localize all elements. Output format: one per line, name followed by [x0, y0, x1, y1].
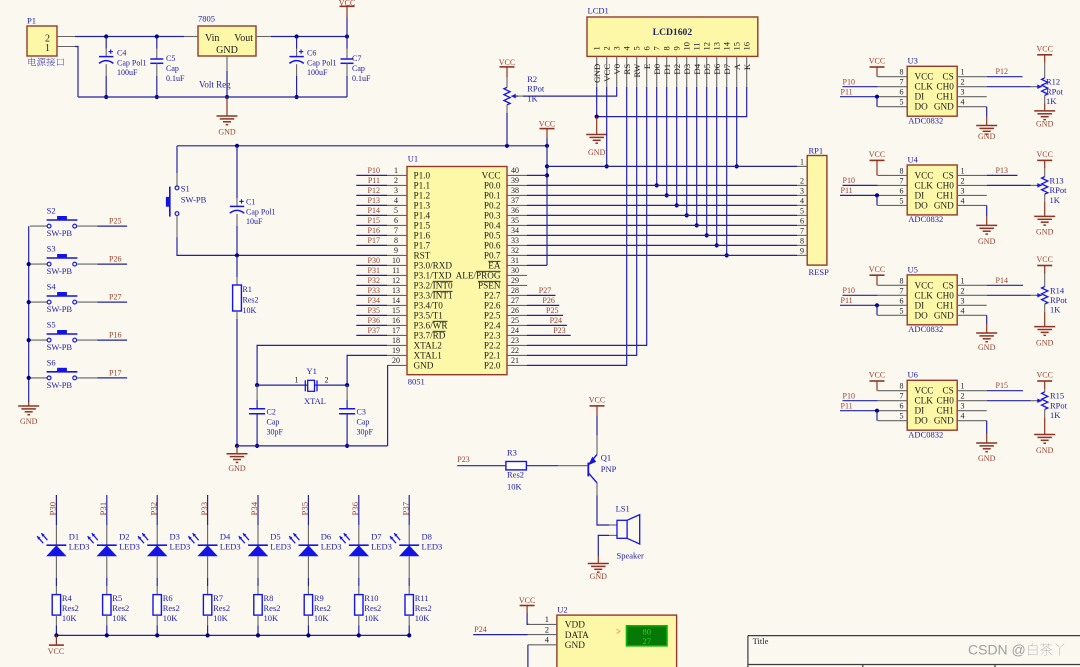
svg-text:3: 3: [800, 186, 804, 195]
svg-text:P24: P24: [550, 316, 562, 325]
svg-text:19: 19: [392, 346, 400, 355]
svg-text:P10: P10: [843, 176, 855, 185]
pin U4-4: [957, 204, 987, 206]
svg-text:VCC: VCC: [915, 170, 934, 180]
svg-text:U2: U2: [557, 605, 567, 615]
svg-text:P17: P17: [368, 236, 380, 245]
svg-text:P37: P37: [400, 501, 410, 515]
pin Q1 collector: [596, 483, 598, 496]
wire D4 to R7: [207, 578, 209, 586]
svg-text:PSEN: PSEN: [478, 281, 501, 291]
wire P0.0 to RP1-2: [527, 184, 797, 186]
pin U4-5: [878, 204, 908, 206]
junction: [104, 95, 108, 99]
svg-text:Cap: Cap: [352, 64, 365, 73]
svg-text:P3.0/RXD: P3.0/RXD: [414, 261, 453, 271]
svg-text:11: 11: [692, 42, 702, 50]
pin U2-1 VDD: [528, 623, 557, 625]
adc U5 ADC0832: [907, 275, 957, 325]
wire VCC vertical (EA/pin40): [546, 146, 548, 266]
capacitor C3: [346, 385, 348, 400]
svg-text:DATA: DATA: [565, 631, 589, 641]
wire CH0 to R15: [987, 400, 1031, 402]
svg-text:C3: C3: [357, 408, 366, 417]
pin U3-5: [878, 106, 908, 108]
pin U1-40 VCC: [507, 174, 527, 176]
pin U1-16 P3.6/WR: [387, 324, 407, 326]
svg-text:VCC: VCC: [915, 72, 934, 82]
svg-text:25: 25: [511, 316, 519, 325]
junction: [655, 183, 659, 187]
svg-text:VCC: VCC: [915, 280, 934, 290]
svg-text:RS: RS: [622, 64, 632, 75]
svg-text:2: 2: [325, 375, 329, 384]
svg-text:S5: S5: [47, 320, 56, 330]
potentiometer R15 RPot 1K: [1044, 389, 1046, 392]
svg-text:P12: P12: [996, 67, 1008, 76]
pin U6-2: [957, 400, 987, 402]
pin LCD1-6 E: [646, 56, 648, 87]
svg-text:1: 1: [961, 68, 965, 77]
svg-text:VCC: VCC: [869, 150, 885, 159]
connector P1: [27, 26, 57, 56]
svg-text:P0.6: P0.6: [484, 241, 501, 251]
svg-text:VCC: VCC: [602, 64, 612, 82]
pin U6-4: [957, 420, 987, 422]
svg-text:U6: U6: [908, 370, 918, 380]
svg-text:CLK: CLK: [915, 82, 934, 92]
port P15: [987, 390, 1023, 392]
speaker LS1: [609, 524, 617, 526]
svg-text:VCC: VCC: [1036, 150, 1052, 159]
junction: [875, 409, 879, 413]
junction: [54, 633, 58, 637]
pin RP1-1: [797, 165, 807, 167]
junction: [695, 223, 699, 227]
port P36: [356, 324, 387, 326]
power VCC (U3): [870, 66, 885, 68]
svg-text:P15: P15: [368, 216, 380, 225]
svg-text:1: 1: [800, 157, 804, 166]
svg-text:34: 34: [511, 226, 519, 235]
svg-text:2: 2: [800, 176, 804, 185]
junction: [235, 253, 239, 257]
pin U1-8 P1.7: [387, 244, 407, 246]
pin RP1-8: [797, 244, 807, 246]
svg-text:16: 16: [392, 316, 400, 325]
pin P1-1: [57, 46, 75, 48]
svg-text:P36: P36: [368, 316, 380, 325]
junction: [685, 213, 689, 217]
svg-text:1: 1: [961, 382, 965, 391]
svg-text:VCC: VCC: [48, 647, 64, 656]
svg-text:P0.7: P0.7: [484, 251, 501, 261]
power VCC (U6): [870, 380, 885, 382]
svg-text:R9: R9: [314, 593, 324, 603]
svg-text:10K: 10K: [314, 613, 330, 623]
potentiometer R12 RPot 1K: [1044, 63, 1046, 78]
port P11: [356, 184, 387, 186]
wire collector to speaker: [597, 495, 609, 525]
svg-text:P23: P23: [553, 326, 565, 335]
svg-text:Speaker: Speaker: [617, 551, 645, 561]
svg-text:15: 15: [732, 42, 742, 51]
wire LCD D6 to P0.6: [716, 87, 718, 246]
svg-text:P2.0: P2.0: [484, 361, 501, 371]
capacitor C7: [346, 37, 348, 49]
svg-text:P3.7/RD: P3.7/RD: [414, 331, 446, 341]
resistor R4 Res2 10K: [55, 586, 57, 595]
pin U1-6 P1.5: [387, 224, 407, 226]
junction: [295, 95, 299, 99]
ground GND (LCD): [596, 117, 598, 135]
junction: [155, 633, 159, 637]
pin U1-20 GND: [387, 364, 407, 366]
wire to bus: [257, 625, 259, 635]
svg-text:8: 8: [662, 46, 672, 50]
svg-text:XTAL1: XTAL1: [414, 351, 443, 361]
capacitor C5: [156, 37, 158, 49]
svg-text:Cap: Cap: [357, 418, 370, 427]
svg-text:P0.4: P0.4: [484, 221, 501, 231]
resistor R9 Res2 10K: [307, 586, 309, 595]
svg-text:6: 6: [394, 216, 398, 225]
svg-text:RPot: RPot: [1050, 400, 1068, 410]
svg-text:8051: 8051: [408, 377, 425, 387]
svg-text:5: 5: [900, 98, 904, 107]
svg-text:R15: R15: [1050, 391, 1064, 401]
svg-text:P12: P12: [368, 186, 380, 195]
junction: [665, 193, 669, 197]
svg-text:D5: D5: [270, 532, 280, 542]
junction: [306, 633, 310, 637]
svg-text:7: 7: [900, 286, 904, 295]
wire P1-1 to bottom rail: [75, 47, 78, 98]
svg-text:P10: P10: [843, 286, 855, 295]
junction: [675, 203, 679, 207]
resistor R3 Res2 10K: [506, 462, 527, 470]
junction: [225, 95, 229, 99]
wire to bus: [307, 625, 309, 635]
wire GND pin4 (U5): [986, 315, 988, 324]
led D2 LED3: [106, 525, 108, 545]
port P24: [473, 634, 528, 636]
pin U5-5: [878, 314, 908, 316]
pin U1-28 P2.7: [507, 294, 527, 296]
svg-text:9: 9: [672, 46, 682, 50]
wire GND pin4 (U3): [986, 107, 988, 117]
port P13: [987, 174, 1018, 176]
svg-text:D5: D5: [702, 63, 712, 74]
wire RS to P2.0: [527, 87, 627, 366]
svg-text:GND: GND: [592, 64, 602, 83]
svg-text:P2.7: P2.7: [484, 291, 501, 301]
svg-text:P35: P35: [368, 306, 380, 315]
pin U5-4: [957, 314, 987, 316]
svg-text:4: 4: [961, 306, 965, 315]
svg-text:VCC: VCC: [482, 171, 501, 181]
svg-text:33: 33: [511, 236, 519, 245]
svg-text:VDD: VDD: [565, 621, 585, 631]
svg-text:SW-PB: SW-PB: [47, 342, 73, 352]
svg-text:P0.5: P0.5: [484, 231, 501, 241]
pin U4-2: [957, 184, 987, 186]
svg-text:12: 12: [702, 42, 712, 51]
svg-text:RPot: RPot: [527, 84, 545, 94]
svg-text:GND: GND: [978, 343, 996, 352]
wire CH0 to R13: [987, 184, 1031, 186]
ground GND (7805): [226, 97, 228, 116]
svg-text:GND: GND: [218, 128, 236, 137]
pin LCD1-11 D4: [696, 56, 698, 87]
svg-text:4: 4: [961, 98, 965, 107]
display readout (U2): [627, 626, 668, 646]
svg-text:5: 5: [900, 306, 904, 315]
svg-text:R3: R3: [507, 447, 517, 457]
svg-text:RESP: RESP: [809, 267, 830, 277]
svg-text:21: 21: [511, 356, 519, 365]
svg-text:1: 1: [592, 46, 602, 50]
wire LCD D5 to P0.5: [706, 87, 708, 236]
svg-text:1: 1: [961, 166, 965, 175]
power VCC (U5): [870, 274, 885, 276]
svg-text:P14: P14: [996, 276, 1008, 285]
svg-text:P2.5: P2.5: [484, 311, 501, 321]
port P15: [356, 224, 387, 226]
junction: [545, 144, 549, 148]
svg-text:ADC0832: ADC0832: [908, 115, 943, 125]
svg-text:D2: D2: [119, 532, 129, 542]
wire D7 to R10: [358, 578, 360, 586]
svg-text:P1.6: P1.6: [414, 231, 431, 241]
pin LCD1-4 RS: [626, 56, 628, 87]
svg-text:CLK: CLK: [915, 396, 934, 406]
junction: [875, 193, 879, 197]
junction: [357, 633, 361, 637]
led D6 LED3: [307, 525, 309, 545]
port P34 (LED): [257, 495, 259, 525]
svg-text:DI: DI: [915, 406, 925, 416]
ground GND (R15): [1034, 434, 1055, 436]
potentiometer R14 RPot 1K: [1044, 274, 1046, 287]
wire LCD D7 to P0.7: [726, 87, 728, 256]
svg-text:RST: RST: [414, 251, 431, 261]
svg-text:P17: P17: [109, 368, 121, 377]
power VCC (R12): [1037, 54, 1052, 56]
wire XTAL2 net: [257, 345, 387, 385]
pin U5-1: [957, 284, 987, 286]
port P27: [527, 294, 556, 296]
wire VCC to U2 pin1: [527, 613, 529, 624]
svg-text:8: 8: [394, 236, 398, 245]
svg-text:22: 22: [511, 346, 519, 355]
svg-text:DI: DI: [915, 92, 925, 102]
svg-text:CH1: CH1: [936, 300, 954, 310]
pin U1-10 P3.0/RXD: [387, 264, 407, 266]
svg-text:3: 3: [961, 296, 965, 305]
port P10 (U3): [843, 86, 878, 88]
svg-text:P0.0: P0.0: [484, 181, 501, 191]
svg-text:27: 27: [511, 296, 519, 305]
svg-text:1K: 1K: [1050, 195, 1061, 205]
svg-text:23: 23: [511, 336, 519, 345]
wire P0.7 to RP1-9: [527, 254, 797, 256]
svg-text:1K: 1K: [1050, 305, 1061, 315]
svg-text:P10: P10: [368, 166, 380, 175]
svg-text:GND: GND: [1036, 446, 1054, 455]
svg-text:2: 2: [394, 176, 398, 185]
pin RP1-6: [797, 224, 807, 226]
svg-text:VCC: VCC: [869, 265, 885, 274]
pin 7805 Vin: [184, 36, 198, 38]
svg-text:P3.5/T1: P3.5/T1: [414, 311, 444, 321]
svg-text:14: 14: [392, 296, 400, 305]
svg-text:ALE/PROG: ALE/PROG: [456, 271, 501, 281]
wire crystal link: [257, 384, 347, 386]
wire switch common bus: [28, 226, 30, 402]
svg-text:P3.4/T0: P3.4/T0: [414, 301, 444, 311]
svg-text:U3: U3: [908, 56, 918, 66]
wire CH0 to R14: [987, 294, 1031, 296]
svg-text:7: 7: [394, 226, 398, 235]
pin U4-8: [878, 174, 908, 176]
junction: [235, 144, 239, 148]
port P10: [356, 174, 387, 176]
svg-text:36: 36: [511, 206, 519, 215]
svg-text:D1: D1: [69, 532, 79, 542]
svg-text:S6: S6: [47, 357, 56, 367]
wire to bus: [358, 625, 360, 635]
svg-text:D6: D6: [712, 63, 722, 74]
resistor R1: [236, 255, 238, 277]
adc U6 ADC0832: [907, 380, 957, 430]
svg-text:R7: R7: [213, 593, 223, 603]
pin U1-19 XTAL1: [387, 354, 407, 356]
wire D3 to R6: [156, 578, 158, 586]
svg-text:P11: P11: [368, 176, 380, 185]
svg-text:CH1: CH1: [936, 92, 954, 102]
port P32: [356, 284, 387, 286]
resistor R11 Res2 10K: [408, 586, 410, 595]
port P11 (U4): [840, 194, 877, 196]
svg-text:R14: R14: [1050, 285, 1065, 295]
junction: [27, 338, 31, 342]
svg-text:6: 6: [900, 296, 904, 305]
svg-text:C7: C7: [352, 54, 361, 63]
svg-text:D4: D4: [220, 532, 231, 542]
svg-text:P1.0: P1.0: [414, 171, 431, 181]
pin U1-2 P1.1: [387, 184, 407, 186]
svg-text:80: 80: [642, 626, 651, 636]
ground GND (U6): [986, 434, 988, 443]
svg-text:8: 8: [800, 236, 804, 245]
pin U1-11 P3.1/TXD: [387, 274, 407, 276]
svg-text:D1: D1: [662, 64, 672, 75]
switch S4 SW-PB: [30, 301, 47, 303]
svg-text:Cap Pol1: Cap Pol1: [307, 59, 337, 68]
resistor R8 Res2 10K: [257, 586, 259, 595]
port P26: [527, 304, 559, 306]
switch S3 SW-PB: [30, 263, 47, 265]
wire DI-DO link: [876, 97, 878, 107]
wire 7805 GND to rail: [226, 71, 228, 97]
svg-text:P11: P11: [841, 401, 853, 410]
pin LCD1-1 GND: [596, 56, 598, 87]
pin U1-12 P3.2/INT0: [387, 284, 407, 286]
port P37 (LED): [408, 495, 410, 525]
pin U5-6: [878, 304, 908, 306]
wire P0.5 to RP1-7: [527, 234, 797, 236]
wire R3 to base: [526, 465, 558, 467]
svg-text:GND: GND: [565, 641, 585, 651]
svg-text:R4: R4: [62, 593, 73, 603]
svg-text:LED3: LED3: [119, 542, 140, 552]
svg-text:U5: U5: [908, 264, 918, 274]
junction: [104, 34, 108, 38]
wire VCC rail right: [547, 165, 797, 167]
svg-text:GND: GND: [1036, 120, 1054, 129]
svg-text:R11: R11: [415, 593, 429, 603]
svg-text:10K: 10K: [112, 613, 128, 623]
junction: [295, 34, 299, 38]
potentiometer R13 RPot 1K: [1044, 168, 1046, 176]
power VCC (Q1): [590, 405, 605, 407]
pin RP1-2: [797, 184, 807, 186]
svg-text:6: 6: [900, 402, 904, 411]
power VCC (U1 pin40): [540, 128, 555, 130]
port P12: [356, 194, 387, 196]
svg-text:D8: D8: [422, 532, 432, 542]
svg-text:P1.4: P1.4: [414, 211, 431, 221]
led D1 LED3: [55, 525, 57, 545]
pin U3-8: [878, 76, 908, 78]
svg-text:P10: P10: [843, 391, 855, 400]
junction: [155, 95, 159, 99]
pin U6-8: [878, 390, 908, 392]
junction: [27, 300, 31, 304]
svg-text:SW-PB: SW-PB: [47, 266, 73, 276]
pin U1-25 P2.4: [507, 324, 527, 326]
adc U4 ADC0832: [907, 165, 957, 215]
ground GND (R13): [1034, 215, 1055, 217]
svg-text:VCC: VCC: [1036, 371, 1052, 380]
svg-text:P3.6/WR: P3.6/WR: [414, 321, 449, 331]
svg-text:R5: R5: [112, 593, 122, 603]
svg-text:ADC0832: ADC0832: [908, 214, 943, 224]
wire LCD A to VCC: [736, 87, 738, 166]
svg-text:VCC: VCC: [869, 371, 885, 380]
svg-text:P13: P13: [368, 196, 380, 205]
pin RP1-3: [797, 194, 807, 196]
svg-text:RPot: RPot: [1050, 185, 1068, 195]
svg-text:5: 5: [632, 46, 642, 50]
svg-text:LED3: LED3: [69, 542, 90, 552]
svg-text:P15: P15: [996, 381, 1008, 390]
svg-text:LCD1602: LCD1602: [653, 27, 693, 38]
pin LCD1-3 V0: [616, 56, 618, 87]
junction: [545, 164, 549, 168]
port P27: [97, 301, 127, 303]
svg-text:CS: CS: [943, 280, 954, 290]
wire K to GND: [597, 87, 747, 117]
wire P0.3 to RP1-5: [527, 214, 797, 216]
wire to bus: [106, 625, 108, 635]
svg-text:P2.1: P2.1: [484, 351, 501, 361]
svg-text:10K: 10K: [415, 613, 431, 623]
svg-text:CH0: CH0: [936, 180, 954, 190]
pin U4-1: [957, 174, 987, 176]
wire RW to P2.1: [527, 87, 637, 356]
